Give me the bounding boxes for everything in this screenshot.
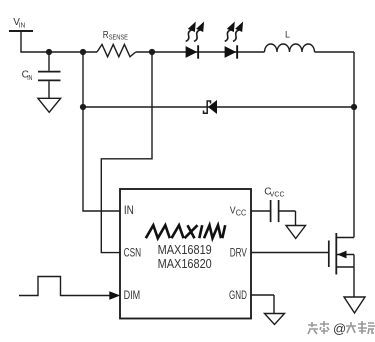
svg-text:GND: GND xyxy=(229,288,247,302)
svg-text:DIM: DIM xyxy=(124,288,141,302)
svg-text:SENSE: SENSE xyxy=(109,32,128,41)
svg-text:IN: IN xyxy=(27,73,32,82)
svg-text:MAX16819: MAX16819 xyxy=(158,242,212,257)
svg-text:CC: CC xyxy=(236,209,247,218)
svg-text:L: L xyxy=(285,30,290,40)
svg-text:CSN: CSN xyxy=(124,246,142,260)
svg-text:IN: IN xyxy=(19,21,25,30)
svg-text:VCC: VCC xyxy=(270,189,285,198)
svg-text:@: @ xyxy=(333,321,346,336)
svg-text:DRV: DRV xyxy=(230,246,247,260)
svg-text:IN: IN xyxy=(124,203,134,217)
svg-text:MAX16820: MAX16820 xyxy=(158,256,212,271)
svg-text:V: V xyxy=(230,205,236,217)
